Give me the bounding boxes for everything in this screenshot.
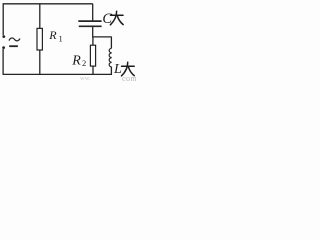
resistor R1 xyxy=(37,28,42,50)
svg-text:ww.: ww. xyxy=(80,75,91,81)
wire capacitor branch upper xyxy=(92,4,94,21)
source terminal dot upper xyxy=(2,35,5,38)
resistor R2 xyxy=(90,45,95,66)
wire capacitor branch lower xyxy=(92,26,94,37)
wire R2 feed xyxy=(92,37,94,45)
inductor L coil xyxy=(109,48,111,67)
wire left rail upper xyxy=(2,4,4,36)
wire R2 tail xyxy=(92,66,94,74)
capacitor C plate bottom xyxy=(79,25,102,27)
svg-text:com: com xyxy=(122,74,137,81)
wire bottom rail xyxy=(3,73,112,75)
wire R1 branch bottom xyxy=(39,50,41,75)
label C-da CJK glyph 大 xyxy=(110,11,123,25)
wire L tail xyxy=(110,67,112,75)
svg-text:L: L xyxy=(113,62,122,77)
capacitor C plate top xyxy=(78,20,101,22)
wire L branch vertical xyxy=(110,37,112,48)
svg-text:R: R xyxy=(48,28,57,42)
source dash symbol xyxy=(9,45,18,47)
wire left rail lower xyxy=(2,49,4,75)
source tilde symbol xyxy=(9,38,20,41)
svg-text:R: R xyxy=(71,53,81,68)
wire tee horizontal to inductor xyxy=(93,36,112,38)
label L-da CJK glyph 大 xyxy=(122,62,135,76)
svg-text:2: 2 xyxy=(82,58,86,68)
wire top rail xyxy=(3,3,93,5)
source terminal dot lower xyxy=(2,46,5,49)
svg-text:1: 1 xyxy=(59,33,63,43)
wire R1 branch top xyxy=(39,4,41,29)
